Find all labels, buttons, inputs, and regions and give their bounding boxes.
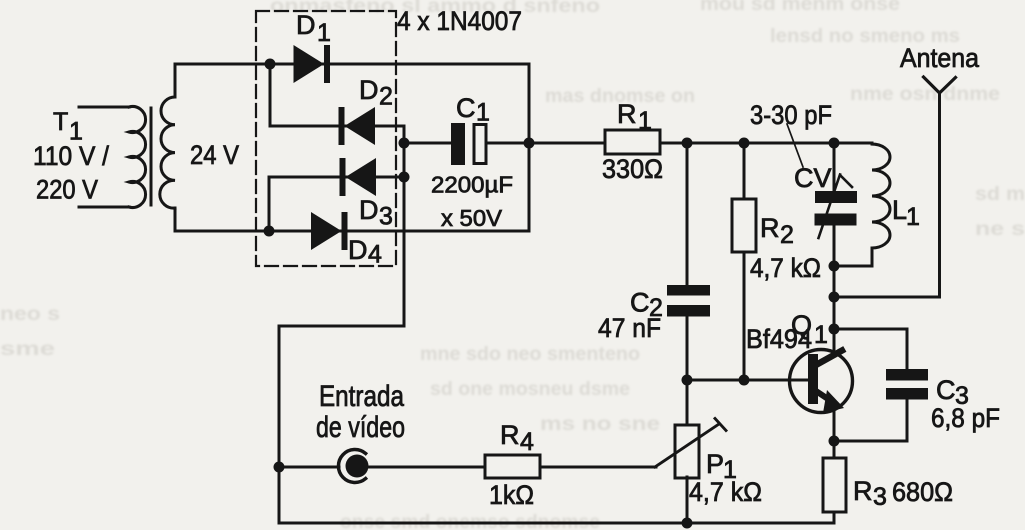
svg-text:mne sdo neo smenteno: mne sdo neo smenteno <box>420 344 640 365</box>
svg-text:D: D <box>359 195 379 225</box>
node base-left <box>682 375 693 386</box>
video input connector <box>338 450 368 483</box>
svg-text:sme: sme <box>0 339 55 360</box>
wire top rail <box>175 63 529 66</box>
diode D3 <box>340 158 377 196</box>
svg-text:3: 3 <box>379 203 393 231</box>
svg-text:Entrada: Entrada <box>319 380 404 413</box>
svg-text:4,7 kΩ: 4,7 kΩ <box>689 477 762 507</box>
capacitor C1 <box>451 123 486 165</box>
transformer T1 <box>79 64 175 231</box>
leader line 3-30pF <box>787 124 803 167</box>
svg-text:47 nF: 47 nF <box>598 313 661 343</box>
svg-text:R: R <box>500 420 520 450</box>
wire D2 row <box>270 125 404 128</box>
svg-text:neo s: neo s <box>0 304 60 325</box>
wire R2 branch upper <box>743 143 746 199</box>
diode D4 <box>311 212 348 250</box>
svg-text:x 50V: x 50V <box>441 205 502 231</box>
wire base line <box>687 379 808 382</box>
resistor R3 <box>823 441 846 523</box>
svg-text:1kΩ: 1kΩ <box>489 480 534 510</box>
node plus output <box>524 138 535 149</box>
node video input left <box>274 462 285 473</box>
node C3 top junction <box>829 324 840 335</box>
svg-text:1: 1 <box>476 99 490 127</box>
node base-mid <box>739 375 750 386</box>
svg-text:T: T <box>53 108 68 136</box>
svg-text:220 V: 220 V <box>36 175 98 205</box>
node P1 bottom <box>682 518 693 529</box>
wire bottom rail <box>279 522 834 525</box>
svg-text:CV: CV <box>794 163 832 193</box>
svg-text:Bf494: Bf494 <box>746 324 812 354</box>
svg-text:2: 2 <box>780 221 794 249</box>
inductor L1 <box>834 143 890 266</box>
svg-text:C: C <box>936 375 956 405</box>
svg-text:R: R <box>760 213 780 243</box>
svg-text:D: D <box>359 75 379 105</box>
capacitor C2 <box>667 285 710 317</box>
svg-text:1: 1 <box>317 19 331 47</box>
svg-text:4,7 kΩ: 4,7 kΩ <box>750 253 821 283</box>
svg-text:R: R <box>617 99 637 129</box>
svg-text:2200µF: 2200µF <box>431 172 513 198</box>
wire D2 bend down <box>403 126 406 143</box>
node antenna junction <box>829 292 840 303</box>
diode D2 <box>339 107 376 145</box>
node emitter junction <box>829 436 840 447</box>
wire video left <box>279 466 339 469</box>
wire CV branch upper <box>833 143 836 192</box>
transistor Q1 <box>790 350 853 442</box>
wire video to R4 <box>368 466 485 469</box>
svg-text:2: 2 <box>379 83 393 111</box>
svg-text:1: 1 <box>906 203 920 231</box>
wire bottom rail of bridge <box>175 230 529 233</box>
wire right vertical D1-D4 cathodes <box>528 64 531 231</box>
node minus bottom <box>399 172 410 183</box>
wire left vertical D3 to bottom rail <box>268 177 271 231</box>
wire ground jog horizontal <box>279 325 404 328</box>
svg-text:6,8 pF: 6,8 pF <box>931 403 1000 433</box>
node R2 top <box>739 138 750 149</box>
wire ground jog vertical <box>278 326 281 523</box>
svg-text:1: 1 <box>638 107 652 135</box>
svg-text:D: D <box>348 235 368 265</box>
wire main rail into C1 <box>404 142 451 145</box>
potentiometer P1 <box>655 419 726 479</box>
svg-text:680Ω: 680Ω <box>892 477 953 507</box>
wire D3 row <box>269 176 404 179</box>
resistor R1 <box>605 130 660 154</box>
wire minus node vertical <box>403 143 406 326</box>
svg-text:330Ω: 330Ω <box>602 154 663 184</box>
dashed enclosure 4 x 1N4007 <box>256 11 396 266</box>
svg-text:4: 4 <box>368 241 382 269</box>
svg-text:sd one mosneu dsme: sd one mosneu dsme <box>430 379 630 400</box>
svg-text:onse smd onemso sdnomse: onse smd onemso sdnomse <box>340 512 600 530</box>
antenna <box>834 77 956 297</box>
svg-text:ne s: ne s <box>975 219 1025 240</box>
svg-text:L: L <box>892 195 907 225</box>
svg-text:C: C <box>456 93 476 123</box>
svg-text:1: 1 <box>814 321 828 349</box>
wire left vertical to D2 row <box>269 64 272 126</box>
resistor R4 <box>485 455 540 478</box>
svg-text:sd m: sd m <box>975 184 1025 205</box>
svg-text:4 x 1N4007: 4 x 1N4007 <box>397 6 522 36</box>
svg-text:110 V /: 110 V / <box>33 141 109 171</box>
wire CV lower to collector <box>833 226 836 352</box>
wire R1 to L1 <box>660 142 872 145</box>
resistor R2 <box>732 199 756 252</box>
svg-text:mou sd menm onse: mou sd menm onse <box>700 0 900 15</box>
node top-left junction <box>265 59 276 70</box>
svg-text:Antena: Antena <box>900 43 980 73</box>
svg-text:3-30 pF: 3-30 pF <box>750 100 832 130</box>
node minus top <box>399 138 410 149</box>
svg-text:24 V: 24 V <box>190 140 239 170</box>
wire R2 branch lower <box>743 252 746 380</box>
wire P1 bottom <box>686 477 689 523</box>
svg-text:nme osn dnme: nme osn dnme <box>850 84 1000 105</box>
wire C1 to R1 <box>486 142 605 145</box>
trimmer capacitor CV <box>815 175 858 239</box>
wire C2 branch upper <box>686 143 689 285</box>
svg-text:ms no sne: ms no sne <box>540 414 660 435</box>
node bottom-left junction <box>264 226 275 237</box>
svg-text:de vídeo: de vídeo <box>316 411 405 444</box>
node C2 top <box>682 138 693 149</box>
wire C2 branch lower <box>686 317 689 426</box>
svg-text:3: 3 <box>873 483 887 511</box>
diode D1 <box>294 45 331 83</box>
node CV top <box>829 138 840 149</box>
wire R4 to wiper <box>540 466 656 469</box>
svg-text:4: 4 <box>520 428 534 456</box>
svg-text:P: P <box>706 449 724 479</box>
node L1 bottom junction <box>829 261 840 272</box>
capacitor C3 <box>834 329 928 441</box>
svg-text:R: R <box>853 476 873 506</box>
svg-text:D: D <box>296 10 316 40</box>
